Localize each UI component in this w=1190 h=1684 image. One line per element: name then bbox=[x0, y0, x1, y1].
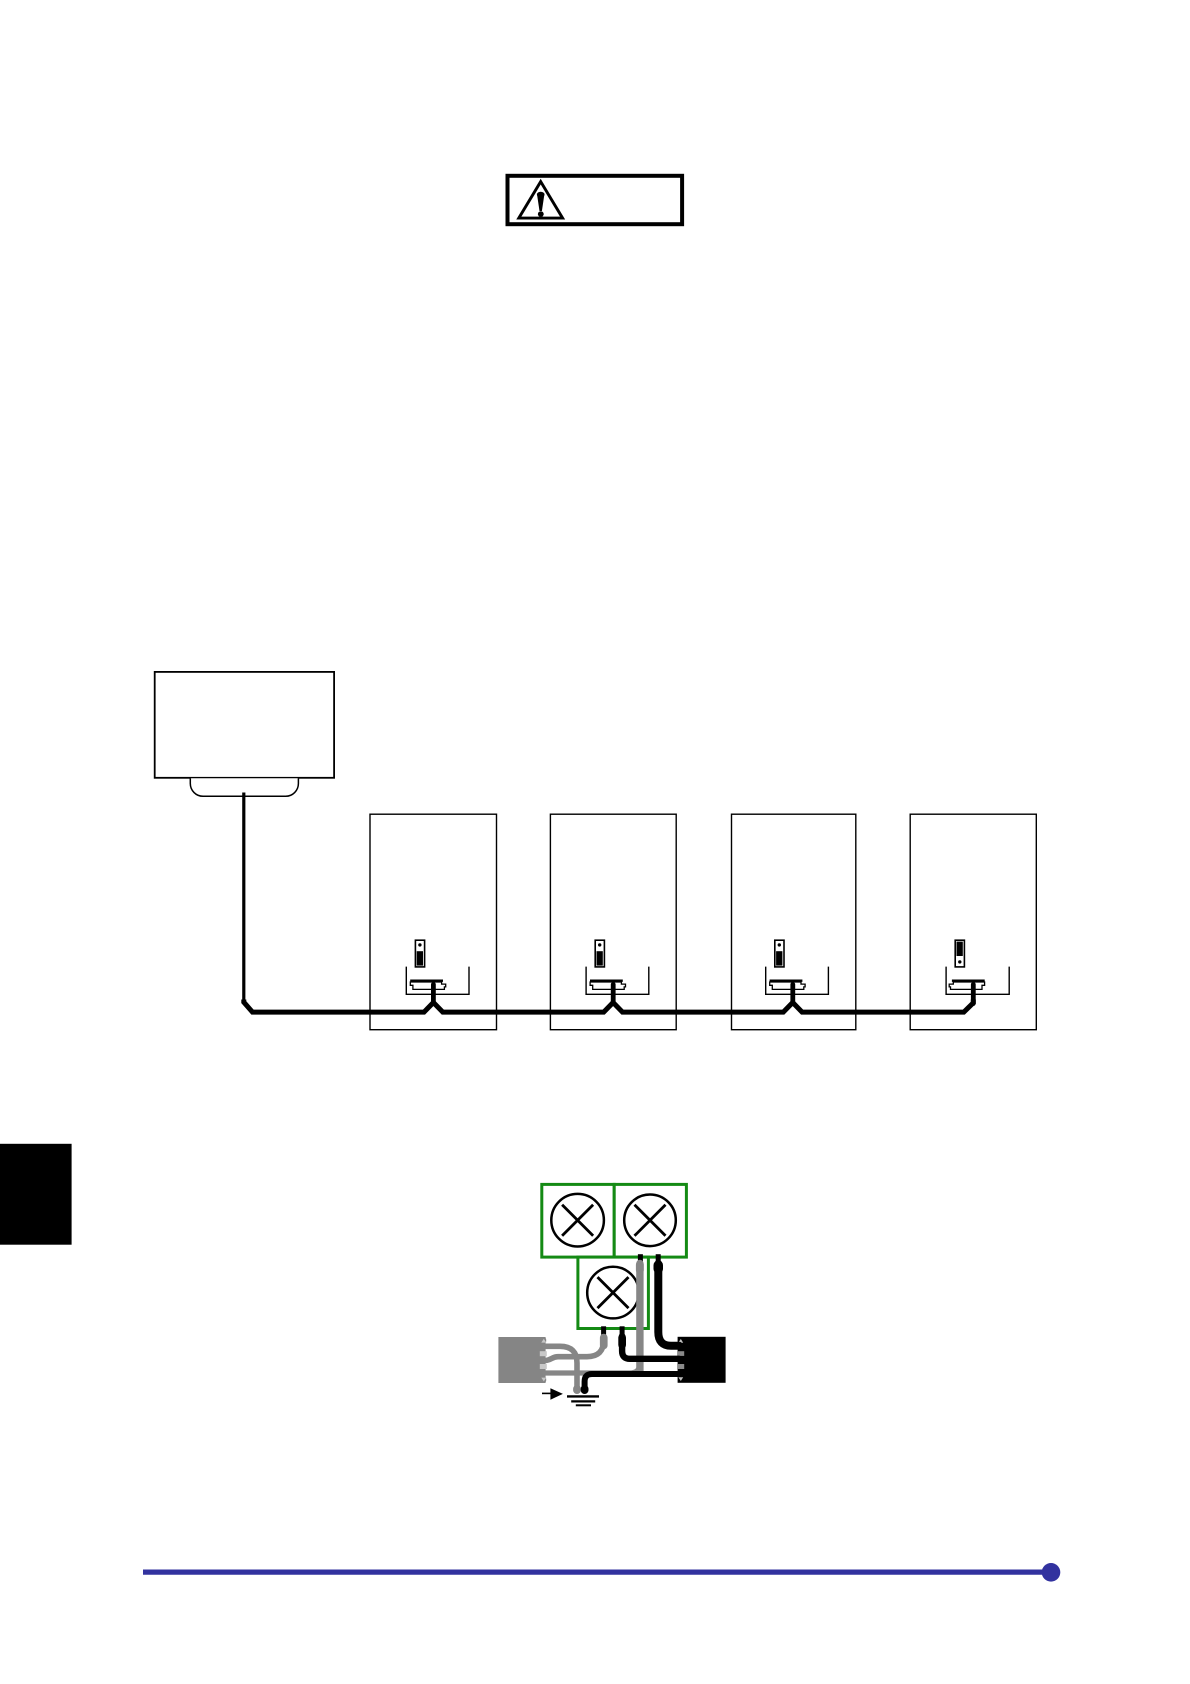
port stub C-left bbox=[601, 1326, 606, 1334]
wire: drop cable from display unit bbox=[242, 793, 245, 1003]
lamp box A bbox=[542, 1184, 614, 1257]
footer rule bbox=[143, 1569, 1046, 1574]
wire: gray lead 3 vertical run bbox=[636, 1264, 643, 1372]
wire: gray lead 3 to lamp box B bbox=[545, 1300, 640, 1373]
lamp symbol C bbox=[587, 1267, 639, 1319]
wire: interface bus cable with branch tents bbox=[244, 1000, 974, 1013]
device 4 connector plug bbox=[949, 981, 985, 990]
wire: device 4 drop lead bbox=[971, 984, 976, 1003]
wire: gray lead 2 to lamp box C bbox=[545, 1337, 604, 1361]
device 2 interface assembly bbox=[586, 940, 649, 1003]
black lead 1 terminal bbox=[654, 1261, 664, 1274]
device 4 interface card icon bbox=[955, 940, 964, 967]
lamp symbol B bbox=[624, 1195, 676, 1247]
device 4 box bbox=[910, 814, 1036, 1029]
gray lead 2 terminal bbox=[600, 1334, 608, 1350]
arrow pointing to ground bbox=[542, 1388, 563, 1399]
footer dot bbox=[1042, 1563, 1061, 1582]
port stub B-right bbox=[656, 1254, 661, 1262]
device 4 connector bay bracket bbox=[946, 967, 1009, 995]
gray lead 1 ground terminal bbox=[573, 1385, 581, 1394]
device 1 interface assembly bbox=[406, 940, 469, 1003]
device 2 box bbox=[550, 814, 676, 1029]
display unit box bbox=[155, 672, 334, 778]
display unit tray bbox=[190, 778, 298, 796]
black connector body bbox=[677, 1337, 726, 1383]
device 1 box bbox=[370, 814, 497, 1029]
warning exclamation dot bbox=[538, 211, 544, 217]
lamp box B bbox=[614, 1184, 686, 1257]
side tab bbox=[0, 1144, 72, 1245]
port stub C-right bbox=[620, 1326, 625, 1334]
gray lead 3 terminal bbox=[636, 1261, 644, 1274]
gray connector body bbox=[498, 1337, 546, 1383]
warning exclamation bar bbox=[537, 192, 545, 198]
device 3 interface assembly bbox=[766, 940, 829, 1003]
wire: black lead 2 from lamp box C bbox=[622, 1336, 679, 1359]
lamp symbol A bbox=[551, 1194, 604, 1247]
wire: black lead 1 from lamp box B bbox=[658, 1264, 679, 1346]
warning box bbox=[508, 176, 683, 224]
black lead 3 ground terminal bbox=[581, 1385, 589, 1394]
warning triangle bbox=[519, 182, 563, 219]
lamp box C bbox=[578, 1257, 649, 1328]
device 3 box bbox=[732, 814, 856, 1029]
ground symbol bbox=[567, 1396, 599, 1405]
black lead 2 terminal bbox=[618, 1334, 626, 1349]
port stub B-left bbox=[638, 1254, 643, 1262]
wire: gray lead 1 to ground bbox=[545, 1346, 577, 1390]
wire: black lead 3 to ground bbox=[585, 1374, 679, 1391]
